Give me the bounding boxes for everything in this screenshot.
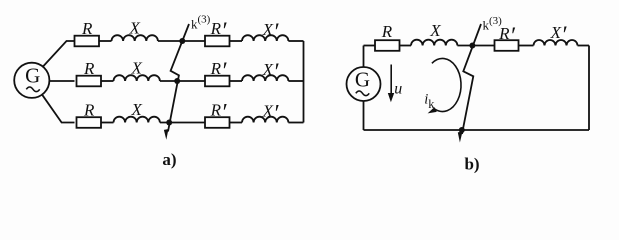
wire X-prime to right bus phase-2 (a) [288, 80, 303, 82]
wire X-prime to right bus phase-3 (a) [288, 122, 303, 124]
inductor X phase-2 (a) [114, 75, 160, 81]
svg-text:X: X [131, 100, 143, 119]
wire X to R-prime phase-2 (a) [160, 80, 205, 82]
wire left riser G-bottom to loop (b) [363, 101, 365, 130]
resistor R-prime (b) [495, 40, 519, 51]
wire R-prime to X-prime phase-3 (a) [230, 122, 243, 124]
svg-text:X′: X′ [550, 23, 567, 49]
wire right rail (b) [588, 46, 590, 131]
fault lightning bolt k(3) (a) [168, 24, 189, 132]
junction dot top fault (b) [469, 43, 475, 49]
wire R to X phase-1 (a) [99, 40, 112, 42]
svg-text:ik: ik [424, 92, 435, 112]
wire bottom return (b) [364, 129, 590, 131]
wire R-prime to X-prime (b) [519, 45, 534, 47]
inductor X (b) [411, 40, 457, 46]
svg-text:G: G [355, 68, 370, 92]
resistor R-prime phase-3 (a) [205, 117, 230, 128]
generator AC tilde symbol (b) [356, 91, 369, 96]
svg-text:k(3): k(3) [191, 14, 211, 32]
wire R-prime to X-prime phase-2 (a) [230, 80, 243, 82]
inductor X-prime (b) [534, 40, 578, 45]
wire top-left to R (b) [364, 45, 376, 47]
svg-text:R: R [381, 22, 393, 41]
generator G (diagram b) [347, 67, 381, 101]
junction dot phase-3 fault (a) [166, 120, 172, 126]
generator AC tilde symbol (a) [26, 87, 39, 92]
svg-text:b): b) [464, 155, 479, 174]
svg-text:R: R [83, 100, 95, 119]
wire X to R-prime phase-3 (a) [160, 122, 205, 124]
svg-text:X′: X′ [262, 20, 279, 46]
wire left riser G-top to loop (b) [363, 46, 365, 68]
svg-text:X′: X′ [262, 101, 279, 127]
fault arrowhead (b) [458, 132, 463, 143]
wire phase-2 lead from G (a) [49, 80, 74, 82]
voltage arrow u (b) [388, 65, 394, 103]
resistor R-prime phase-2 (a) [205, 76, 230, 87]
wire R to X (b) [400, 45, 412, 47]
junction dot bottom fault (b) [459, 127, 465, 133]
svg-text:G: G [25, 63, 40, 87]
svg-text:R: R [83, 59, 95, 78]
inductor X phase-3 (a) [114, 117, 160, 123]
junction dot phase-1 fault (a) [179, 38, 185, 44]
wire right bus (a) [303, 41, 305, 123]
current loop arrow i_k (b) [428, 58, 461, 113]
generator G (diagram a) [14, 63, 49, 98]
fault lightning bolt k(3) (b) [462, 24, 481, 134]
resistor R (b) [375, 40, 400, 51]
wire R-prime to X-prime phase-1 (a) [230, 40, 243, 42]
wire phase-1 diagonal lead from G (a) [43, 41, 75, 67]
svg-text:a): a) [162, 150, 176, 169]
svg-text:X: X [131, 59, 143, 78]
wire X-prime to right rail (b) [578, 45, 590, 47]
inductor X-prime phase-1 (a) [242, 35, 288, 41]
inductor X-prime phase-2 (a) [242, 75, 288, 81]
inductor X phase-1 (a) [112, 35, 158, 41]
wire X-prime to right bus phase-1 (a) [288, 40, 303, 42]
resistor R phase-1 (a) [75, 36, 100, 47]
resistor R phase-2 (a) [77, 76, 102, 87]
wire phase-3 diagonal lead from G (a) [42, 95, 74, 123]
junction dot phase-2 fault (a) [174, 78, 180, 84]
svg-text:u: u [394, 81, 402, 98]
wire R to X phase-2 (a) [101, 80, 114, 82]
inductor X-prime phase-3 (a) [242, 117, 288, 123]
svg-text:R: R [81, 19, 93, 38]
fault arrowhead (a) [164, 129, 169, 140]
wire R to X phase-3 (a) [101, 122, 114, 124]
svg-text:X: X [129, 19, 141, 38]
wire X to R-prime phase-1 (a) [158, 40, 205, 42]
svg-text:X′: X′ [262, 60, 279, 86]
resistor R phase-3 (a) [77, 117, 102, 128]
wire X to R-prime (b) [457, 45, 494, 47]
resistor R-prime phase-1 (a) [205, 36, 230, 47]
svg-text:X: X [429, 21, 441, 40]
